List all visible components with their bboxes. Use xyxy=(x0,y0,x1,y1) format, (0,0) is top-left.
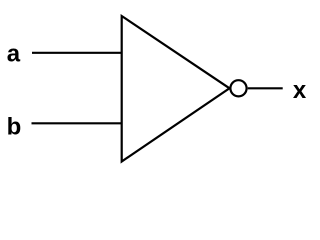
wire input b xyxy=(32,122,122,124)
wire input a xyxy=(32,52,122,54)
svg-text:b: b xyxy=(7,113,22,140)
inverter bubble xyxy=(230,80,246,96)
svg-text:a: a xyxy=(7,41,21,68)
gate U1 triangle body xyxy=(122,16,230,162)
wire output x xyxy=(248,87,283,89)
svg-text:x: x xyxy=(293,77,307,104)
